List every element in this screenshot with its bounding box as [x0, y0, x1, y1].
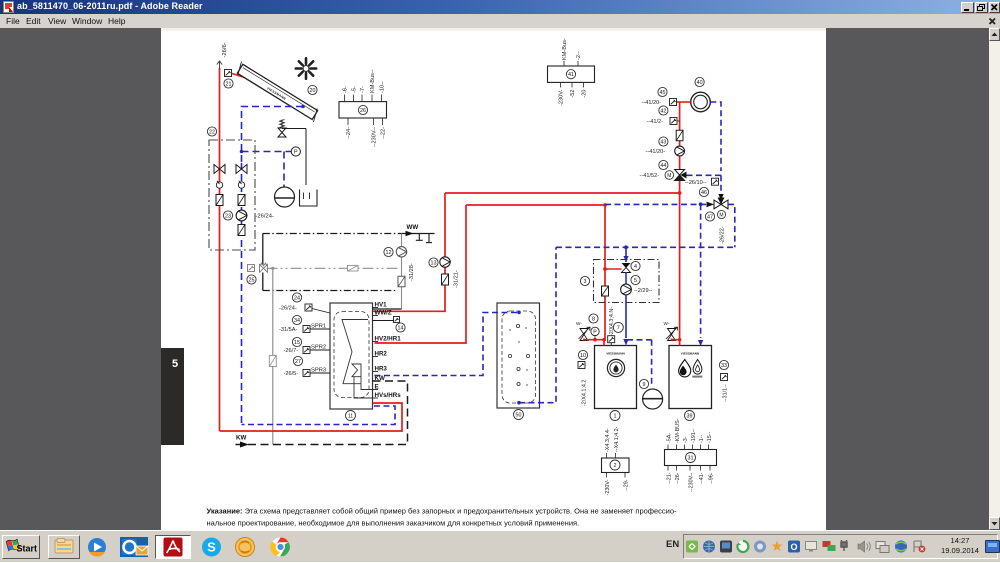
close button: [989, 2, 1000, 13]
svg-text:22: 22: [209, 129, 215, 135]
svg-text:47: 47: [707, 214, 713, 220]
blue pipe to expansion vessel: [283, 152, 285, 188]
svg-text:26: 26: [360, 108, 366, 114]
pdf app icon: [3, 1, 15, 13]
pump group box 22: [209, 140, 255, 250]
blue drop to valve 47: [720, 175, 722, 194]
HV1 link line: [373, 308, 402, 310]
svg-text:50: 50: [516, 412, 522, 418]
red stub into pump 40: [677, 101, 691, 103]
filter in box3: [602, 286, 609, 296]
tap symbol 2: [428, 234, 430, 243]
connector box 45: [670, 99, 677, 106]
svg-text:-3-: -3-: [683, 436, 689, 443]
filter on riser: [676, 130, 683, 141]
node label 26: [358, 105, 367, 114]
node label 14: [396, 323, 405, 332]
sun symbol: [296, 58, 316, 78]
branch to pressure gauge: [242, 151, 292, 153]
node label 34: [292, 315, 301, 324]
thermometer blue line: [238, 182, 244, 188]
svg-text:-31/28-: -31/28-: [409, 263, 415, 281]
DHW pump 12: [396, 247, 406, 257]
connector box 33: [721, 374, 728, 381]
red supply pipe boiler39 riser: [679, 102, 681, 340]
svg-text:HR2: HR2: [375, 351, 388, 358]
filter below pump: [238, 225, 245, 236]
svg-text:-20: -20: [582, 90, 588, 98]
node label 47: [705, 212, 714, 221]
svg-text:HV2/HR1: HV2/HR1: [375, 336, 402, 343]
blue pipe valve4 to pump5: [625, 272, 627, 284]
boiler 1 body: [595, 346, 637, 409]
svg-text:-X4.3;4.4-: -X4.3;4.4-: [605, 428, 611, 452]
solar expansion vessel: [275, 187, 295, 207]
svg-text:-52: -52: [570, 90, 576, 98]
svg-text:44: 44: [660, 163, 666, 169]
svg-text:-KM-BUS-: -KM-BUS-: [675, 418, 681, 443]
connector box 10: [578, 362, 585, 369]
node label 23: [223, 211, 232, 220]
svg-text:31: 31: [688, 455, 694, 461]
node label 21: [224, 79, 233, 88]
gray filter: [269, 356, 276, 367]
svg-text:-26/24-: -26/24-: [279, 306, 297, 312]
svg-text:-26/22-: -26/22-: [720, 226, 726, 244]
node label 8: [589, 314, 598, 323]
tap symbol 1: [418, 234, 420, 241]
blue solar return pipe: [242, 406, 396, 425]
WW outlet line: [402, 233, 435, 235]
svg-text:--96-: --96-: [708, 472, 714, 484]
svg-text:-31/21-: -31/21-: [454, 270, 460, 288]
window title bar: [0, 0, 1000, 14]
boiler 39 body: [669, 346, 712, 409]
svg-text:23: 23: [225, 213, 231, 219]
svg-text:VIESSMANN: VIESSMANN: [681, 352, 700, 356]
red pipe from vent to collector: [232, 74, 251, 80]
svg-text:-10--: -10--: [380, 81, 386, 93]
svg-text:5: 5: [634, 278, 637, 284]
red solar pipe tank to collector: [220, 403, 403, 431]
svg-text:-2--: -2--: [576, 51, 582, 60]
svg-text:3: 3: [584, 279, 587, 285]
svg-text:--26/10--: --26/10--: [685, 180, 707, 186]
solar controller box 26: [339, 102, 387, 118]
blue pipe pump5 to boiler1: [625, 295, 627, 338]
drain funnel: [300, 190, 318, 207]
chrome icon: [264, 535, 297, 559]
blue pipe tank50 bottom to trunk: [519, 247, 556, 402]
tank 50 body: [497, 303, 540, 408]
motor M of valve 44: [665, 171, 674, 180]
safety valve W boiler39: [668, 329, 676, 341]
svg-text:P: P: [294, 150, 298, 156]
svg-text:-2/X4.1;4.2: -2/X4.1;4.2: [582, 380, 588, 406]
svg-text:21: 21: [226, 81, 232, 87]
svg-text:--22-: --22-: [381, 127, 387, 139]
solar flow red riser pipe: [219, 68, 221, 431]
white pdf page: [161, 28, 826, 530]
node label 44: [659, 160, 668, 169]
pump 13: [440, 257, 450, 267]
red stub to check valve: [605, 268, 622, 270]
filter red line: [216, 195, 223, 206]
node label 41: [566, 70, 575, 79]
junction box 2: [602, 458, 630, 473]
svg-text:KW: KW: [236, 435, 246, 442]
red riser x605 to boiler1: [604, 205, 606, 341]
svg-text:1: 1: [614, 413, 617, 419]
svg-text:4: 4: [634, 264, 637, 270]
skype icon: [195, 535, 228, 559]
svg-text:--21-: --21-: [666, 472, 672, 484]
node label 31: [686, 453, 696, 463]
svg-text:7: 7: [617, 325, 620, 331]
svg-text:--230V--: --230V--: [372, 127, 378, 147]
boiler 1 burner symbol: [607, 359, 624, 376]
svg-text:--41/20-: --41/20-: [642, 100, 662, 106]
svg-text:27: 27: [295, 359, 301, 365]
svg-text:M: M: [719, 212, 723, 218]
safety valve solar: [278, 128, 286, 133]
svg-text:нальное проектирование, необхо: нальное проектирование, необходимое для …: [207, 519, 580, 528]
safety valve W boiler1: [580, 329, 588, 341]
svg-text:P: P: [593, 329, 597, 335]
solar return blue pipe from collector: [301, 105, 305, 109]
tank 50 inner shell: [502, 311, 536, 403]
motor M of valve 47: [717, 210, 725, 218]
mixing valve 25: [260, 264, 268, 272]
svg-text:--41/20-: --41/20-: [646, 149, 666, 155]
KW cold water line: [233, 381, 408, 445]
node label 43: [659, 137, 668, 146]
svg-text:45: 45: [660, 90, 666, 96]
connector box 26/10: [712, 178, 719, 185]
gray mixed flow line: [267, 267, 400, 269]
red trunk pipe y205: [466, 204, 605, 206]
start button: [2, 535, 40, 559]
svg-text:S: S: [207, 540, 216, 555]
svg-text:15: 15: [294, 340, 300, 346]
node label 45: [658, 87, 667, 96]
svg-text:20: 20: [310, 88, 316, 94]
node label 11: [346, 411, 356, 421]
node label 3: [580, 276, 589, 285]
svg-text:--41/52-: --41/52-: [640, 173, 660, 179]
svg-text:--24-: --24-: [346, 127, 352, 139]
svg-text:-31/5A-: -31/5A-: [279, 327, 297, 333]
svg-text:HV1: HV1: [375, 302, 388, 309]
svg-text:-5-: -5-: [352, 86, 358, 93]
svg-text:12: 12: [386, 250, 392, 256]
svg-text:40: 40: [697, 80, 703, 86]
node label 2: [610, 460, 620, 470]
connector box 21: [225, 70, 232, 77]
three-way valve 44: [675, 170, 685, 176]
node label 20: [308, 85, 317, 94]
svg-text:24: 24: [294, 295, 300, 301]
air vent arrow on solar riser: [217, 61, 222, 69]
menu bar: [0, 14, 1000, 29]
svg-text:--230V--: --230V--: [688, 472, 694, 492]
svg-text:-26/5-: -26/5-: [284, 371, 299, 377]
svg-text:HVs/HRs: HVs/HRs: [375, 392, 402, 399]
node label 1: [610, 411, 620, 421]
expansion vessel 9: [643, 389, 663, 409]
tank 11 port stubs: [373, 307, 379, 309]
node label 15: [292, 337, 301, 346]
svg-text:--29-: --29-: [624, 479, 630, 491]
svg-text:-230V-: -230V-: [605, 479, 611, 495]
node label 33: [719, 360, 728, 369]
tank 11 solar coil: [342, 320, 373, 399]
svg-text:8: 8: [592, 316, 595, 322]
svg-text:34: 34: [294, 318, 300, 324]
taskbar: [0, 530, 1000, 562]
svg-text:Start: Start: [17, 544, 38, 554]
blue valve47 right loop: [728, 204, 735, 247]
quick launch folder icon: [48, 535, 80, 559]
svg-text:-26/6-: -26/6-: [222, 42, 228, 57]
svg-text:-7-: -7-: [360, 86, 366, 93]
node label 25: [247, 275, 256, 284]
media player icon: [85, 535, 110, 559]
show desktop icon: [985, 540, 1000, 553]
svg-text:WW: WW: [407, 224, 419, 231]
svg-text:13: 13: [431, 260, 437, 266]
heating circuit left drop: [262, 234, 264, 265]
heating circuit line top dashdot: [263, 233, 402, 235]
svg-text:-1--: -1--: [699, 434, 705, 443]
tank 50 bottom connection dot: [517, 401, 521, 405]
pressure gauge P: [291, 147, 300, 156]
filter under pump13: [442, 274, 449, 285]
arrow into valve 47: [707, 202, 715, 208]
gray return drop line: [272, 268, 274, 444]
svg-text:HR3: HR3: [375, 366, 388, 373]
svg-text:11: 11: [348, 413, 354, 419]
svg-text:25: 25: [249, 277, 255, 283]
shutoff valve on blue line: [236, 165, 247, 174]
svg-text:33: 33: [721, 363, 727, 369]
blue return trunk y247: [556, 246, 735, 248]
svg-text:W-: W-: [664, 321, 670, 326]
svg-text:--31/1--: --31/1--: [723, 384, 729, 402]
WW riser gray: [401, 234, 403, 310]
outlook icon: [117, 535, 151, 559]
filter under pump12: [398, 276, 405, 287]
svg-text:-26/24-: -26/24-: [256, 214, 274, 220]
solar pump 23: [236, 210, 247, 221]
svg-text:42: 42: [660, 108, 666, 114]
blue stub valve44: [687, 174, 722, 176]
connector box 7 on boiler top: [608, 336, 615, 343]
junction box 31: [665, 450, 717, 466]
WWZ link to box14: [373, 320, 395, 322]
svg-text:W-: W-: [576, 321, 582, 326]
svg-text:46: 46: [701, 190, 707, 196]
svg-text:2: 2: [614, 463, 617, 469]
node label 12: [384, 247, 393, 256]
node label 39: [685, 411, 695, 421]
shutoff valve on red line: [214, 165, 225, 174]
svg-text:--X4.1;4.2-: --X4.1;4.2-: [614, 426, 620, 452]
node label 22: [207, 127, 216, 136]
svg-text:-191--: -191--: [691, 428, 697, 443]
svg-text:9: 9: [643, 382, 646, 388]
red pipe safety to boiler1: [584, 339, 604, 340]
svg-text:--26-: --26-: [675, 472, 681, 484]
boiler 39 burner bar: [692, 376, 702, 378]
node label 9: [639, 379, 648, 388]
connector box 25: [248, 265, 255, 272]
node label 7: [613, 322, 623, 332]
svg-text:--41/2-: --41/2-: [647, 119, 664, 125]
svg-text:-230V-: -230V-: [559, 89, 565, 106]
red pipe safety to boiler39: [672, 339, 680, 340]
pressure gauge P boiler1: [591, 327, 599, 335]
node label 42: [659, 106, 668, 115]
solar collector 20: [234, 62, 320, 122]
clock: [938, 536, 982, 555]
boiler1 connection group box 3: [594, 260, 660, 303]
red trunk pipe y193: [445, 192, 680, 194]
blue pipe HR3 to tank50 top: [375, 313, 520, 376]
svg-text:14: 14: [398, 325, 404, 331]
node label 40: [695, 77, 704, 86]
svg-text:Указание: Эта схема представля: Указание: Эта схема представляет собой о…: [207, 507, 677, 516]
KW arrow: [240, 442, 249, 448]
pump 5: [621, 284, 632, 295]
svg-text:M: M: [667, 173, 671, 179]
svg-text:-26/7-: -26/7-: [284, 348, 299, 354]
svg-text:--2/29--: --2/29--: [634, 288, 652, 294]
filter blue line: [238, 195, 245, 206]
svg-text:10: 10: [580, 353, 586, 359]
svg-text:41: 41: [568, 72, 574, 78]
svg-text:39: 39: [687, 413, 693, 419]
blue return from valve47 left: [605, 203, 707, 205]
language indicator EN: [666, 539, 679, 550]
sametime icon: [231, 535, 259, 559]
pump 43: [675, 146, 685, 156]
red riser x466 to tank HV2: [375, 205, 467, 343]
red riser x445 to tank WWZ: [373, 193, 446, 311]
DHW circulation pump 40: [691, 92, 711, 112]
svg-text:-15--: -15--: [707, 431, 713, 443]
blue return pipe through pump group: [241, 163, 243, 425]
svg-text:E: E: [375, 384, 379, 391]
blue pipe pump40 loop: [710, 102, 721, 171]
discharge pipe to drain: [282, 128, 306, 130]
tank 11 inner shell: [334, 312, 369, 398]
vertical scrollbar: [989, 28, 1000, 530]
schematic drawing: [161, 28, 826, 530]
system tray inset: [683, 534, 998, 559]
svg-text:WW/Z: WW/Z: [375, 310, 392, 317]
svg-text:O: O: [790, 542, 797, 552]
svg-text:KM-Bus-: KM-Bus-: [562, 38, 568, 60]
page number tab 5: [161, 348, 184, 445]
boiler 39 gas flame symbol: [693, 360, 702, 375]
window title text: [17, 1, 203, 11]
boiler 39 oil drop symbol: [679, 360, 691, 377]
restore button: [975, 2, 988, 13]
heating circuit line lower dashdot: [262, 273, 264, 291]
blue branch to vessel 9: [627, 339, 652, 341]
blue boiler39 return riser: [700, 204, 702, 338]
node label 24: [292, 293, 301, 302]
three-way valve 47: [714, 200, 728, 209]
svg-text:-5A-: -5A-: [666, 433, 672, 443]
controller box 41: [548, 66, 595, 82]
svg-text:KM-Bus--: KM-Bus--: [370, 69, 376, 93]
check valve 4: [622, 263, 631, 268]
node label 4: [631, 261, 640, 270]
node label 50: [514, 410, 524, 420]
connector box 42: [670, 118, 677, 125]
adobe reader icon (active): [155, 535, 191, 559]
minimize button: [961, 2, 974, 13]
tank 50 sensor dots: [516, 324, 519, 327]
svg-text:-2/X4.3;4.N-: -2/X4.3;4.N-: [609, 307, 615, 336]
red junction dot box3: [603, 267, 607, 271]
blue drop to check valve 4: [625, 247, 627, 262]
svg-text:VIESSMANN: VIESSMANN: [606, 352, 625, 356]
svg-text:-6-: -6-: [343, 86, 349, 93]
thermometer red line: [216, 182, 222, 188]
node label 13: [429, 258, 438, 267]
node label 5: [631, 275, 640, 284]
tank 11 body: [330, 303, 373, 409]
svg-text:43: 43: [660, 139, 666, 145]
gray valve rect on mixed line: [348, 265, 359, 271]
node label 46: [699, 187, 708, 196]
svg-text:--41-: --41-: [699, 472, 705, 484]
node label 27: [293, 356, 302, 365]
node label 10: [578, 350, 587, 359]
tank 50 top connection dot: [517, 311, 521, 315]
